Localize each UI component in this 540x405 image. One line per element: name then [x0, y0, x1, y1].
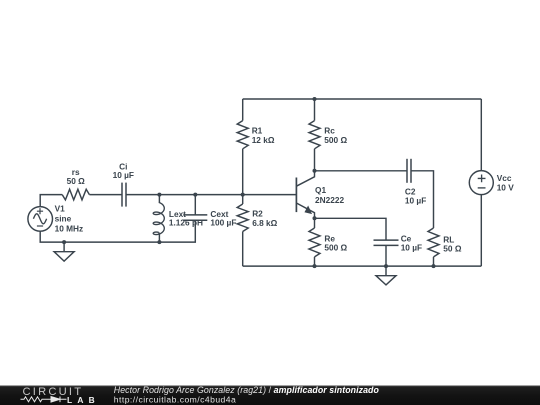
wire emitter to Ce, node E: [315, 218, 387, 240]
wire collector to C2, node C: [315, 170, 408, 172]
svg-text:sine: sine: [55, 214, 72, 224]
capacitor Ce 10 uF: [374, 240, 399, 266]
svg-text:10 µF: 10 µF: [405, 196, 426, 206]
resistor Re 500 Ohm: [309, 218, 320, 266]
wire V1 plus to rs: [40, 195, 62, 207]
node Re bottom on ground rail: [313, 264, 317, 268]
wire Vcc source minus to ground rail: [480, 195, 482, 266]
svg-text:12 kΩ: 12 kΩ: [252, 135, 275, 145]
node Cext top on base net: [193, 193, 197, 197]
svg-text:6.8 kΩ: 6.8 kΩ: [252, 218, 277, 228]
wire Ci to Q1 base, node B: [126, 194, 296, 196]
svg-text:10 MHz: 10 MHz: [55, 224, 84, 234]
svg-text:2N2222: 2N2222: [315, 195, 344, 205]
wire Vcc rail down to Vcc source: [480, 99, 482, 171]
node Lext bottom on input rail: [157, 240, 161, 244]
node emitter node E: [313, 216, 317, 220]
resistor R1 12 kOhm: [237, 99, 248, 195]
wire C2 to RL: [411, 171, 434, 228]
svg-text:500 Ω: 500 Ω: [324, 243, 347, 253]
svg-text:50 Ω: 50 Ω: [67, 176, 86, 186]
capacitor Ci 10 uF: [122, 183, 126, 207]
svg-text:50 Ω: 50 Ω: [443, 244, 462, 254]
resistor rs 50 Ohm: [62, 189, 89, 200]
voltage source V1 sine 10 MHz: [28, 207, 53, 232]
resistor Rc 500 Ohm: [309, 99, 320, 171]
svg-text:Q1: Q1: [315, 185, 326, 195]
node RL bottom on ground rail: [432, 264, 436, 268]
wire bottom ground rail: [243, 265, 482, 267]
svg-text:10 µF: 10 µF: [401, 243, 422, 253]
inductor Lext 1.126 pH: [153, 195, 164, 243]
svg-text:1.126 pH: 1.126 pH: [169, 218, 203, 228]
node R1-R2 divider on base net: [241, 193, 245, 197]
node input ground junction: [62, 240, 66, 244]
resistor R2 6.8 kOhm: [237, 195, 248, 267]
node collector node C: [313, 169, 317, 173]
wire input bottom rail to Cext: [40, 220, 195, 242]
svg-text:10 µF: 10 µF: [113, 170, 134, 180]
node Ce bottom on ground rail: [384, 264, 388, 268]
svg-text:500 Ω: 500 Ω: [324, 135, 347, 145]
resistor RL 50 Ohm: [428, 228, 439, 266]
capacitor Cext 100 uF: [183, 195, 207, 221]
node Rc top on Vcc rail: [313, 97, 317, 101]
svg-text:V1: V1: [55, 204, 66, 214]
svg-text:http://circuitlab.com/c4bud4a: http://circuitlab.com/c4bud4a: [114, 395, 236, 405]
transistor Q1 2N2222 NPN: [296, 171, 314, 219]
ground main: [376, 266, 396, 285]
wire top Vcc rail: [243, 98, 482, 100]
logo circuit doodle: wire, resistor, diode: [21, 397, 67, 403]
svg-text:100 µF: 100 µF: [210, 218, 236, 228]
svg-text:LAB: LAB: [67, 395, 100, 405]
ground input: [54, 242, 74, 261]
wire rs to Ci: [89, 194, 122, 196]
svg-text:10 V: 10 V: [497, 182, 515, 192]
capacitor C2 10 uF: [407, 159, 411, 183]
voltage source Vcc 10 V: [469, 171, 493, 195]
node Lext top on base net: [157, 193, 161, 197]
